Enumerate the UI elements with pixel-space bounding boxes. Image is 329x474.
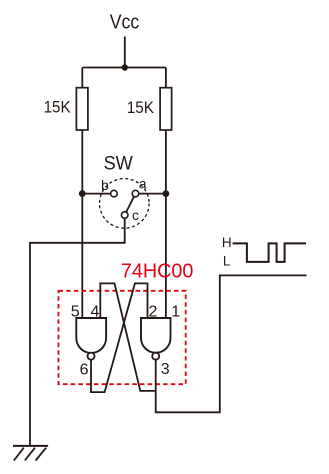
- switch contact c (common): [121, 212, 128, 219]
- svg-text:H: H: [222, 235, 232, 250]
- svg-text:4: 4: [91, 303, 100, 320]
- svg-text:5: 5: [71, 303, 80, 320]
- resistor right 15K: [160, 88, 172, 130]
- wire pin 4 cross-coupling to pin 3: [100, 283, 155, 391]
- ground hatch stroke 2: [25, 448, 35, 461]
- svg-text:15K: 15K: [127, 99, 154, 117]
- svg-text:2: 2: [149, 304, 158, 321]
- svg-text:1: 1: [171, 304, 180, 321]
- wire right column (resistor bottom to gate pin 1): [165, 130, 167, 318]
- ground hatch stroke 3: [36, 448, 47, 461]
- node right junction at contact a: [163, 190, 170, 197]
- wire pin 6 cross-coupling to pin 2: [91, 283, 148, 392]
- wire top rail: [82, 67, 166, 69]
- NAND gate U1b body (right, pins 2,1 in / 3 out): [141, 318, 171, 353]
- switch contact a: [132, 190, 139, 197]
- NAND gate U1a body (left, pins 5,4 in / 6 out): [76, 318, 106, 353]
- svg-text:c: c: [132, 207, 139, 223]
- wire contact c to ground run: [30, 218, 125, 446]
- svg-text:L: L: [223, 254, 231, 269]
- switch SW dashed outline circle: [100, 179, 150, 229]
- svg-text:6: 6: [80, 362, 89, 379]
- IC boundary red dashed box: [59, 291, 186, 384]
- svg-text:15K: 15K: [44, 99, 71, 117]
- svg-text:Vcc: Vcc: [110, 12, 139, 34]
- wire Vcc stem: [124, 37, 126, 68]
- switch lever c to a: [126, 197, 134, 213]
- node Vcc junction: [122, 64, 128, 70]
- svg-text:a: a: [139, 175, 147, 191]
- wire to contact b: [82, 193, 110, 195]
- wire output pin 3 to waveform node: [156, 275, 307, 412]
- NAND gate U1b output bubble: [152, 353, 159, 360]
- switch contact b: [111, 190, 118, 197]
- wire left column (resistor bottom to gate pin 5): [81, 130, 83, 318]
- ground hatch stroke 1: [14, 448, 24, 461]
- resistor left 15K: [76, 88, 88, 130]
- waveform trace: [233, 243, 306, 262]
- svg-text:3: 3: [161, 361, 170, 378]
- wire left resistor top lead: [81, 68, 83, 88]
- wire from contact a: [139, 193, 166, 195]
- ground bar: [13, 445, 48, 447]
- NAND gate U1a output bubble: [88, 353, 95, 360]
- wire right resistor top lead: [165, 68, 167, 88]
- svg-text:b: b: [101, 177, 109, 193]
- svg-text:74HC00: 74HC00: [121, 261, 193, 283]
- node left junction at contact b: [79, 190, 86, 197]
- svg-text:SW: SW: [104, 154, 133, 175]
